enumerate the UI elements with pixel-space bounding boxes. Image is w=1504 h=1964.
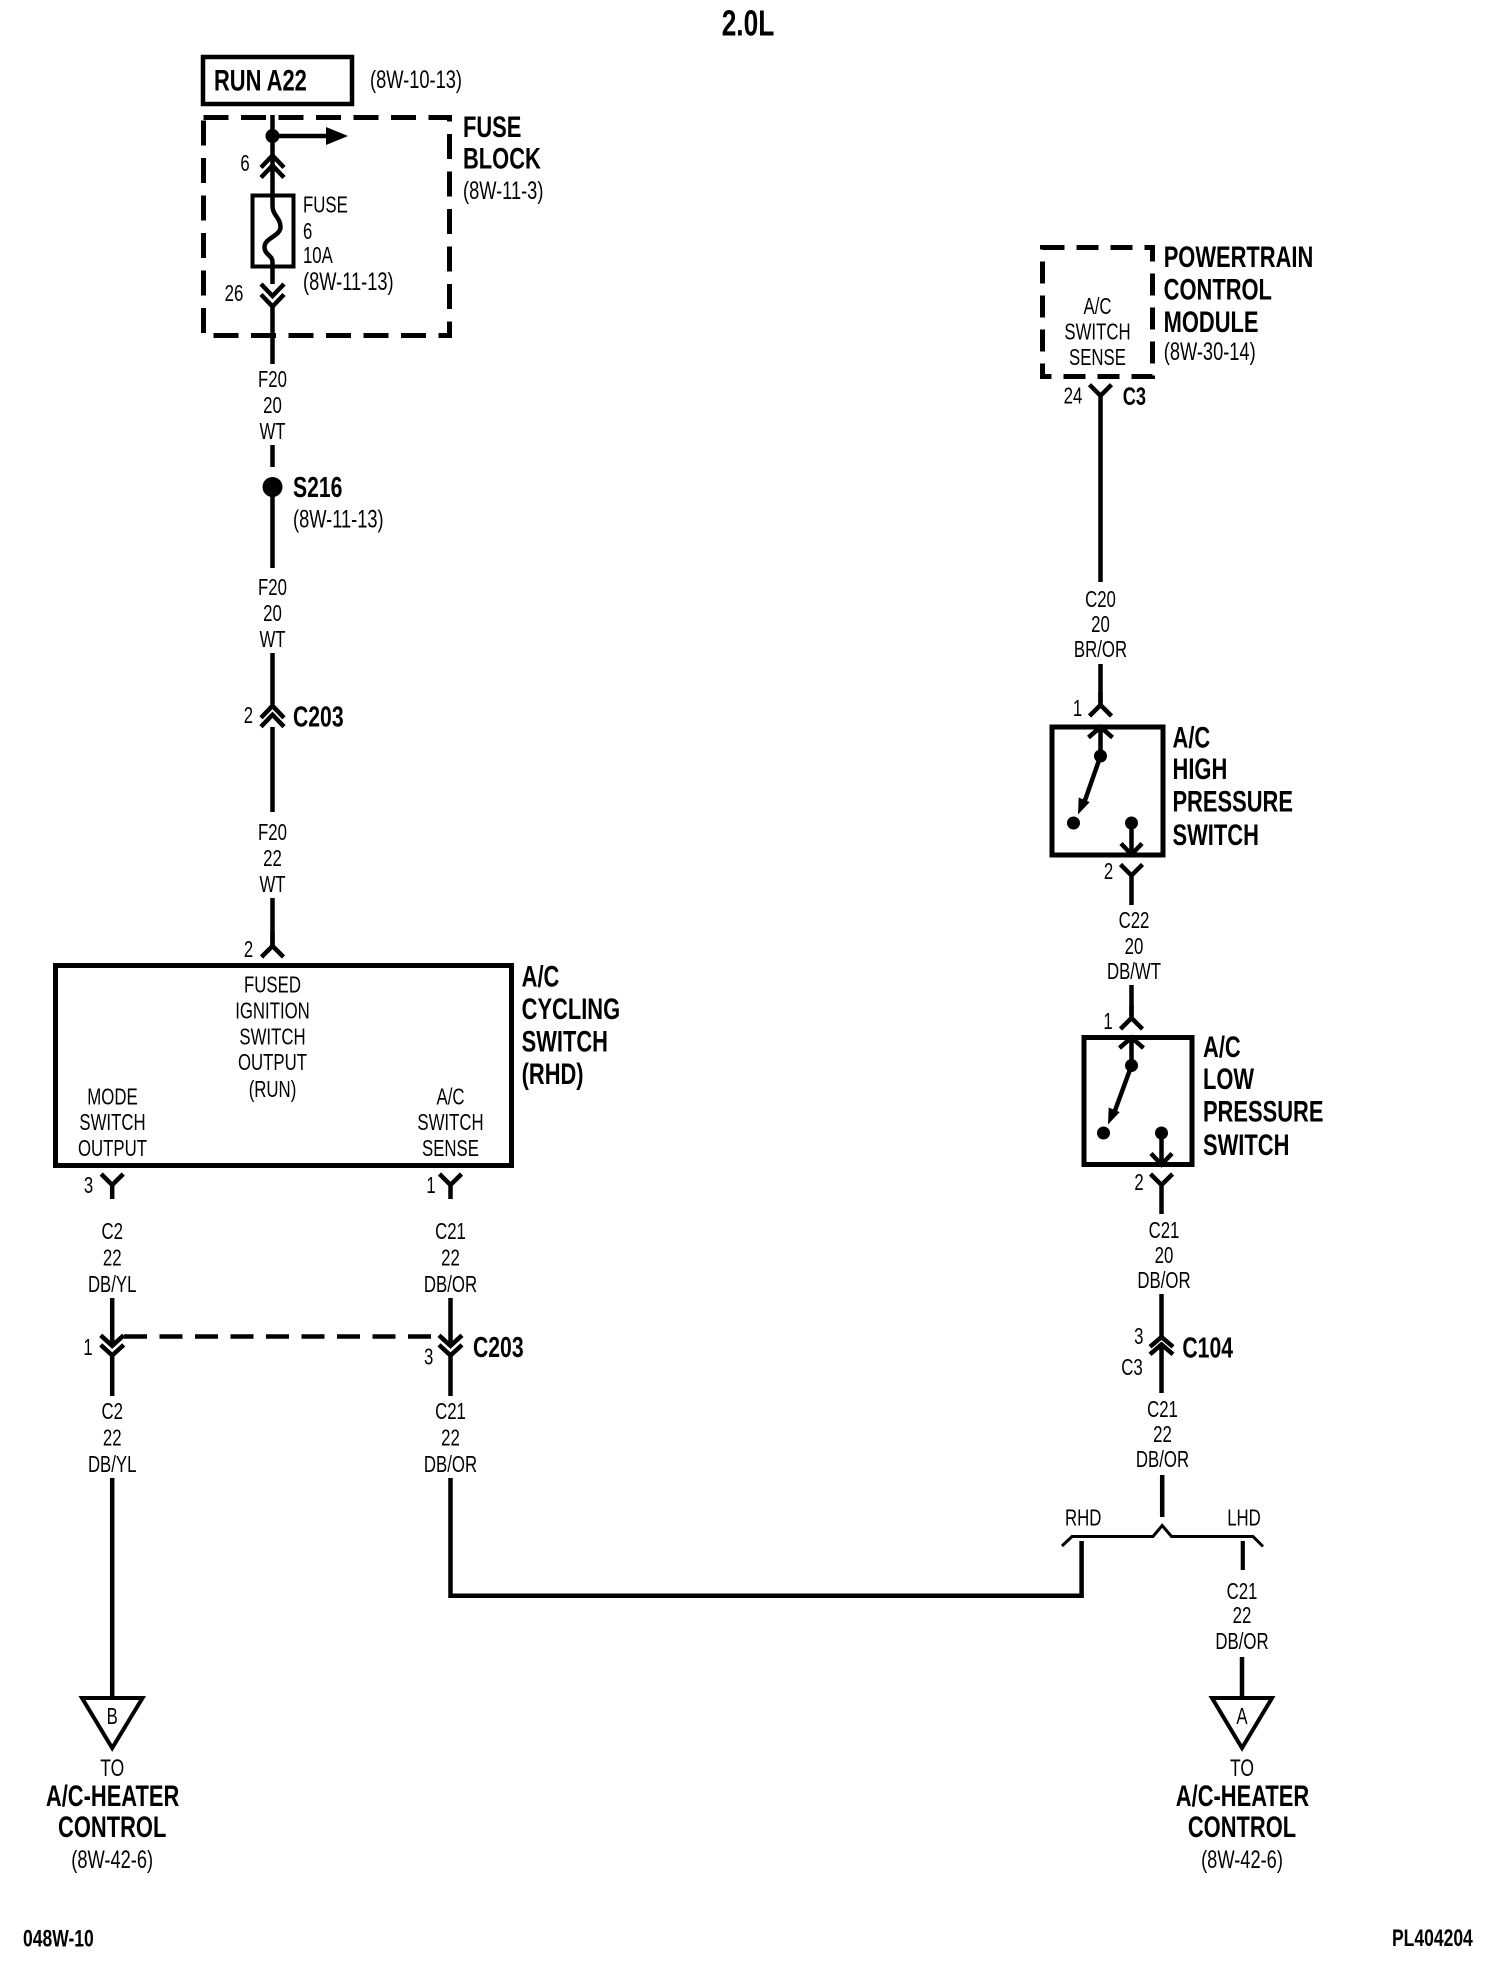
powertrain control module dashed outline: [1043, 248, 1153, 377]
svg-text:22: 22: [103, 1245, 122, 1271]
svg-text:20: 20: [263, 600, 282, 626]
svg-text:SENSE: SENSE: [1069, 344, 1126, 370]
pin 24 exit connector (PCM): [1090, 385, 1112, 419]
high switch internals: [1089, 727, 1113, 750]
svg-text:10A: 10A: [303, 242, 333, 268]
svg-text:CONTROL: CONTROL: [1164, 273, 1272, 306]
svg-text:(8W-42-6): (8W-42-6): [1201, 1846, 1283, 1874]
svg-text:20: 20: [1125, 933, 1144, 959]
svg-text:A/C-HEATER: A/C-HEATER: [1176, 1780, 1310, 1813]
svg-text:RHD: RHD: [1065, 1505, 1101, 1531]
svg-text:SWITCH: SWITCH: [1064, 319, 1130, 345]
RHD/LHD splice brace: [1062, 1526, 1263, 1547]
svg-text:1: 1: [83, 1334, 92, 1360]
svg-text:DB/WT: DB/WT: [1107, 958, 1161, 984]
A/C high pressure switch box: [1052, 727, 1163, 855]
svg-text:C3: C3: [1121, 1354, 1143, 1380]
connector C104 double chevron: [1150, 1337, 1173, 1347]
wire below C203 pin 1: [110, 1355, 115, 1396]
svg-text:C104: C104: [1182, 1333, 1233, 1365]
wire to A/C-heater control (B): [110, 1478, 115, 1696]
arrow to other circuits: [273, 134, 328, 139]
svg-text:PRESSURE: PRESSURE: [1172, 786, 1293, 819]
svg-text:A/C-HEATER: A/C-HEATER: [46, 1780, 180, 1813]
svg-text:6: 6: [240, 150, 249, 176]
wire to C104: [1159, 1294, 1164, 1337]
svg-text:20: 20: [263, 392, 282, 418]
svg-text:DB/OR: DB/OR: [424, 1451, 477, 1477]
svg-text:(8W-10-13): (8W-10-13): [370, 66, 462, 94]
wire RUN A22 feed into fuse block: [270, 115, 275, 196]
svg-text:C2: C2: [101, 1398, 123, 1424]
wire LHD branch: [1241, 1541, 1245, 1570]
svg-text:OUTPUT: OUTPUT: [238, 1049, 307, 1075]
svg-text:RUN A22: RUN A22: [214, 65, 307, 98]
svg-text:(8W-30-14): (8W-30-14): [1164, 338, 1256, 366]
wire out of fuse block: [270, 306, 275, 364]
svg-text:SWITCH: SWITCH: [417, 1109, 483, 1135]
svg-text:26: 26: [225, 280, 244, 306]
svg-text:DB/YL: DB/YL: [88, 1271, 137, 1297]
svg-text:F20: F20: [258, 819, 287, 845]
wire below C104: [1159, 1347, 1164, 1393]
svg-text:SENSE: SENSE: [422, 1135, 479, 1161]
wire to pin 1 high pressure switch: [1098, 664, 1103, 703]
wire to C203 pin 3: [448, 1298, 453, 1346]
A/C cycling switch box: [56, 966, 512, 1166]
wire A/C switch sense to RHD branch: [451, 1478, 1082, 1596]
wire below C203: [270, 727, 275, 812]
svg-text:A/C: A/C: [437, 1084, 465, 1110]
svg-text:20: 20: [1091, 611, 1110, 637]
svg-text:(8W-11-13): (8W-11-13): [303, 268, 394, 296]
svg-text:PL404204: PL404204: [1392, 1925, 1473, 1952]
svg-text:1: 1: [1073, 695, 1082, 721]
svg-text:LHD: LHD: [1227, 1505, 1261, 1531]
connector pin 26 (fuse block) double chevron: [261, 284, 284, 296]
svg-text:(RUN): (RUN): [249, 1076, 297, 1102]
svg-text:1: 1: [1103, 1008, 1112, 1034]
svg-text:(8W-11-3): (8W-11-3): [463, 177, 543, 205]
svg-text:CYCLING: CYCLING: [522, 993, 621, 1026]
svg-text:CONTROL: CONTROL: [58, 1811, 166, 1844]
svg-text:22: 22: [441, 1425, 460, 1451]
svg-text:2: 2: [244, 702, 253, 728]
svg-text:MODE: MODE: [87, 1084, 137, 1110]
svg-text:C21: C21: [1147, 1396, 1178, 1422]
wire PCM to high pressure switch: [1098, 418, 1103, 582]
svg-text:(8W-11-13): (8W-11-13): [293, 506, 384, 534]
svg-text:048W-10: 048W-10: [23, 1926, 94, 1953]
wire below splice: [270, 494, 275, 568]
wire to C203: [270, 653, 275, 706]
wire segment above splice: [270, 445, 275, 467]
wire to A/C cycling switch: [270, 898, 275, 946]
svg-text:C21: C21: [435, 1218, 466, 1244]
fuse 6 10A: [253, 196, 294, 267]
svg-text:(RHD): (RHD): [522, 1058, 584, 1091]
svg-text:WT: WT: [259, 418, 285, 444]
svg-text:POWERTRAIN: POWERTRAIN: [1164, 241, 1314, 274]
svg-text:BLOCK: BLOCK: [463, 143, 541, 176]
svg-text:C22: C22: [1119, 907, 1150, 933]
svg-text:C20: C20: [1085, 586, 1116, 612]
svg-text:C3: C3: [1123, 383, 1146, 411]
wire below low switch: [1159, 1199, 1164, 1214]
pin 1 entry connector (low pressure switch): [1121, 1005, 1143, 1029]
svg-text:2: 2: [1104, 858, 1113, 884]
low switch internals: [1120, 1038, 1144, 1061]
svg-text:C21: C21: [435, 1398, 466, 1424]
svg-text:3: 3: [84, 1172, 93, 1198]
off-page connector triangle A: [1212, 1698, 1272, 1748]
pin 2 exit connector (low pressure switch): [1151, 1174, 1173, 1199]
svg-text:DB/OR: DB/OR: [1136, 1446, 1189, 1472]
svg-text:C203: C203: [293, 702, 344, 734]
svg-text:C2: C2: [101, 1218, 123, 1244]
wire to triangle A: [1240, 1657, 1245, 1698]
pin 2 exit connector (high pressure switch): [1121, 865, 1143, 890]
svg-text:1: 1: [426, 1172, 435, 1198]
svg-text:SWITCH: SWITCH: [1203, 1129, 1289, 1162]
svg-text:DB/OR: DB/OR: [1215, 1628, 1268, 1654]
wire below C203 pin 3: [448, 1355, 453, 1396]
svg-text:SWITCH: SWITCH: [1173, 819, 1259, 852]
wire to C203 pin 1: [110, 1298, 115, 1346]
splice S216: [263, 477, 283, 497]
svg-text:A/C: A/C: [1203, 1031, 1241, 1064]
wire to pin 1 low pressure switch: [1129, 985, 1134, 1016]
svg-text:DB/OR: DB/OR: [424, 1271, 477, 1297]
svg-text:A/C: A/C: [522, 961, 560, 994]
svg-text:22: 22: [1233, 1602, 1252, 1628]
A/C low pressure switch box: [1084, 1038, 1192, 1165]
svg-text:20: 20: [1155, 1242, 1174, 1268]
svg-text:22: 22: [263, 845, 282, 871]
svg-text:PRESSURE: PRESSURE: [1203, 1096, 1324, 1129]
svg-text:FUSE: FUSE: [463, 111, 521, 144]
wire fuse to pin 26: [270, 267, 275, 284]
svg-text:FUSED: FUSED: [244, 972, 301, 998]
svg-text:IGNITION: IGNITION: [235, 997, 310, 1023]
svg-text:BR/OR: BR/OR: [1074, 636, 1127, 662]
junction dot in fuse block: [266, 129, 280, 143]
svg-text:6: 6: [303, 218, 312, 244]
svg-text:A: A: [1236, 1703, 1248, 1729]
svg-text:F20: F20: [258, 366, 287, 392]
svg-text:2: 2: [1134, 1169, 1143, 1195]
fuse element squiggle: [265, 197, 281, 267]
svg-text:SWITCH: SWITCH: [522, 1026, 608, 1059]
svg-text:TO: TO: [1230, 1755, 1254, 1782]
wire below high switch: [1129, 889, 1134, 905]
svg-text:22: 22: [103, 1425, 122, 1451]
off-page connector triangle B: [82, 1698, 143, 1748]
connector C203 pin 1 double chevron: [101, 1335, 124, 1346]
svg-text:(8W-42-6): (8W-42-6): [71, 1846, 153, 1874]
svg-text:SWITCH: SWITCH: [79, 1109, 145, 1135]
svg-text:22: 22: [1153, 1421, 1172, 1447]
svg-text:A/C: A/C: [1173, 721, 1211, 754]
svg-text:2.0L: 2.0L: [722, 3, 775, 44]
svg-text:SWITCH: SWITCH: [239, 1023, 305, 1049]
svg-text:TO: TO: [100, 1755, 124, 1782]
pin 1 exit connector (a/c switch sense): [440, 1174, 462, 1199]
svg-text:WT: WT: [259, 871, 285, 897]
svg-text:MODULE: MODULE: [1164, 306, 1259, 339]
svg-text:C203: C203: [473, 1332, 524, 1364]
svg-text:WT: WT: [259, 626, 285, 652]
svg-text:DB/YL: DB/YL: [88, 1451, 137, 1477]
svg-text:FUSE: FUSE: [303, 192, 348, 218]
connector C203 pin 2 double chevron: [261, 706, 284, 718]
svg-text:F20: F20: [258, 574, 287, 600]
fuse block dashed outline: [204, 118, 450, 336]
svg-text:C21: C21: [1227, 1578, 1258, 1604]
pin 3 exit connector (mode switch output): [101, 1174, 123, 1199]
svg-text:3: 3: [424, 1344, 433, 1370]
wire to RHD/LHD brace: [1160, 1475, 1165, 1517]
svg-text:2: 2: [244, 936, 253, 962]
dashed tie line between C203 pins: [124, 1334, 442, 1339]
pin 2 entry connector (A/C cycling switch): [262, 932, 284, 957]
svg-text:HIGH: HIGH: [1173, 753, 1228, 786]
svg-text:LOW: LOW: [1203, 1063, 1255, 1096]
connector C203 pin 3 double chevron: [439, 1335, 462, 1346]
svg-text:A/C: A/C: [1084, 293, 1112, 319]
pin 1 entry connector (high pressure switch): [1090, 692, 1112, 716]
svg-text:OUTPUT: OUTPUT: [78, 1135, 147, 1161]
svg-text:3: 3: [1134, 1323, 1143, 1349]
connector pin 6 (fuse block) double chevron: [261, 156, 284, 168]
svg-text:C21: C21: [1149, 1217, 1180, 1243]
svg-text:24: 24: [1064, 383, 1083, 409]
svg-text:22: 22: [441, 1245, 460, 1271]
node RUN A22 hot feed box: [203, 57, 352, 104]
svg-text:DB/OR: DB/OR: [1137, 1267, 1190, 1293]
svg-text:CONTROL: CONTROL: [1188, 1811, 1296, 1844]
svg-text:B: B: [107, 1703, 118, 1729]
svg-text:S216: S216: [293, 472, 342, 504]
